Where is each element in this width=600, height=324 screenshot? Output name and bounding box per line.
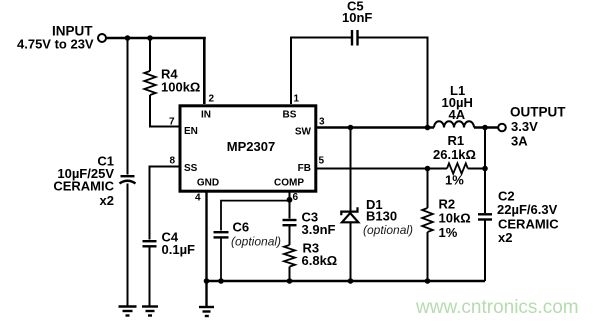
svg-text:SS: SS: [184, 163, 198, 174]
svg-text:EN: EN: [184, 126, 198, 137]
resistor R1: [447, 163, 468, 173]
wire bottom ground bus: [207, 280, 486, 282]
node FB junction R2: [425, 166, 431, 172]
svg-text:26.1kΩ: 26.1kΩ: [433, 147, 476, 162]
capacitor C1: [120, 176, 136, 183]
node COMP junction: [287, 197, 293, 203]
wire C4 lower: [149, 246, 151, 306]
svg-text:C6: C6: [233, 220, 250, 235]
svg-text:6: 6: [293, 192, 299, 203]
svg-text:3A: 3A: [511, 134, 528, 149]
svg-text:3.3V: 3.3V: [511, 119, 538, 134]
svg-text:(optional): (optional): [231, 235, 281, 249]
ground C4: [142, 307, 158, 316]
ground main: [199, 307, 214, 316]
svg-text:(optional): (optional): [363, 223, 413, 237]
wire R3 lower: [289, 267, 291, 281]
node input junction C1: [125, 35, 131, 41]
wire output node to C2: [484, 128, 486, 214]
svg-text:10kΩ: 10kΩ: [439, 211, 471, 226]
svg-text:4: 4: [195, 193, 201, 204]
svg-text:4A: 4A: [449, 107, 466, 122]
diode D1 B130: [341, 207, 358, 222]
wire input to IN pin: [106, 37, 206, 104]
resistor R3: [284, 245, 295, 267]
svg-text:MP2307: MP2307: [227, 139, 275, 154]
capacitor C6: [214, 232, 229, 237]
node bus C6: [218, 278, 224, 284]
inductor L1: [434, 121, 474, 127]
capacitor C5: [352, 30, 358, 46]
svg-text:100kΩ: 100kΩ: [161, 80, 200, 95]
svg-text:0.1µF: 0.1µF: [162, 242, 196, 257]
output terminal: [498, 124, 506, 132]
svg-text:4.75V to 23V: 4.75V to 23V: [17, 37, 94, 52]
wire R2 lower: [427, 232, 429, 281]
op-amp U1 MP2307 body: [180, 106, 316, 191]
wire C1 branch upper: [127, 38, 129, 175]
svg-text:22µF/6.3V: 22µF/6.3V: [497, 202, 558, 217]
svg-text:OUTPUT: OUTPUT: [510, 105, 566, 120]
wire R4 upper: [149, 38, 151, 71]
node bus R3: [287, 278, 293, 284]
wire R4 to EN pin 7: [150, 95, 179, 127]
node SW junction C5: [425, 125, 431, 131]
svg-text:1%: 1%: [439, 225, 458, 240]
wire L1 to output: [474, 126, 498, 128]
wire C6 lower: [220, 237, 222, 281]
svg-text:BS: BS: [283, 110, 297, 121]
wire C3 to R3: [289, 225, 291, 245]
svg-text:SW: SW: [295, 127, 312, 138]
svg-text:5: 5: [319, 156, 325, 167]
svg-text:6.8kΩ: 6.8kΩ: [302, 253, 338, 268]
wire C5 left to BS pin 1: [291, 38, 351, 105]
wire SW pin 3 to L1: [316, 126, 434, 128]
node bus D1: [348, 278, 354, 284]
resistor R2: [422, 208, 433, 232]
wire COMP to C6: [221, 201, 290, 231]
ground C1: [119, 307, 137, 316]
wire D1 vertical: [350, 128, 352, 282]
resistor R4: [144, 71, 155, 95]
svg-text:x2: x2: [498, 230, 512, 245]
svg-text:2: 2: [209, 94, 215, 105]
wire SS pin 8 to C4: [150, 167, 179, 240]
wire COMP pin 6 down: [289, 192, 291, 219]
svg-text:R2: R2: [439, 197, 456, 212]
wire C5 right to SW node: [359, 38, 428, 127]
svg-text:IN: IN: [201, 110, 211, 121]
svg-text:FB: FB: [298, 163, 311, 174]
svg-text:7: 7: [169, 117, 175, 128]
svg-text:R1: R1: [448, 133, 465, 148]
node R1 output junction: [482, 166, 488, 172]
node SW junction D1: [348, 125, 354, 131]
node bus GND: [204, 278, 210, 284]
node bus R2: [425, 278, 431, 284]
svg-text:8: 8: [170, 156, 176, 167]
svg-text:1: 1: [294, 94, 300, 105]
node input junction R4: [147, 35, 153, 41]
svg-text:3.9nF: 3.9nF: [302, 222, 336, 237]
wire C2 lower: [484, 220, 486, 282]
wire R2 vertical upper: [427, 169, 429, 209]
wire R1 to output node: [468, 168, 485, 170]
svg-text:1%: 1%: [445, 173, 464, 188]
capacitor C3: [283, 220, 297, 225]
svg-text:B130: B130: [366, 209, 397, 224]
node output junction: [482, 125, 488, 131]
svg-text:3: 3: [319, 117, 325, 128]
svg-text:GND: GND: [197, 178, 219, 189]
capacitor C4: [143, 241, 157, 246]
wire C1 branch lower: [127, 184, 129, 307]
svg-text:www.cntronics.com: www.cntronics.com: [415, 297, 579, 318]
wire FB pin 5 to R1: [316, 168, 447, 170]
svg-text:10nF: 10nF: [342, 10, 372, 25]
input terminal: [98, 34, 106, 42]
wire GND pin 4 down: [205, 192, 207, 308]
capacitor C2: [478, 214, 492, 219]
svg-text:COMP: COMP: [274, 178, 304, 189]
